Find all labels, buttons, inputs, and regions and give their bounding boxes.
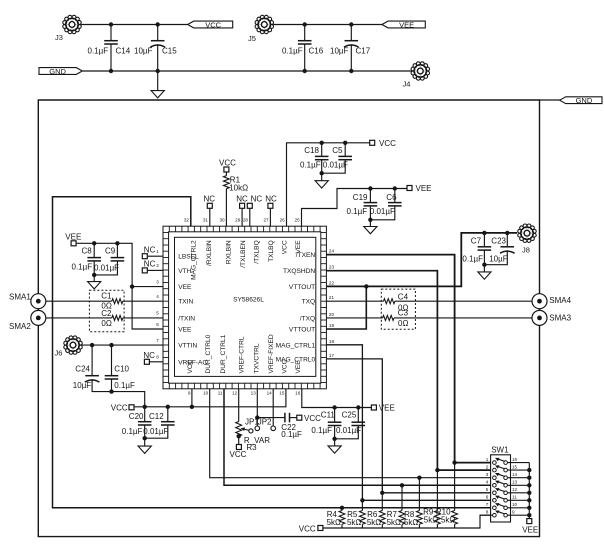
svg-text:30: 30 [219, 217, 225, 222]
svg-text:J5: J5 [248, 34, 256, 43]
svg-text:20: 20 [329, 312, 335, 317]
wire SW1 right contact [508, 499, 530, 501]
junction C17 top [349, 22, 353, 26]
resistor R8 5k [418, 478, 420, 511]
svg-text:C2: C2 [101, 309, 112, 318]
capacitor C20 [144, 407, 146, 422]
jumper JP2 [271, 426, 276, 431]
svg-text:9: 9 [188, 391, 191, 396]
wire SW1 right contact [508, 492, 530, 494]
svg-text:VCC: VCC [304, 414, 321, 423]
capacitor C12 [167, 407, 169, 422]
junction C14 bottom [109, 69, 113, 73]
junction pin3 VEE [130, 284, 134, 288]
resistor R4 5k [341, 508, 343, 511]
junction R7 tap [400, 483, 404, 487]
svg-text:TXQ: TXQ [302, 299, 316, 306]
svg-text:7: 7 [156, 338, 159, 343]
svg-text:VCC: VCC [187, 359, 194, 373]
svg-text:VTTOUT: VTTOUT [289, 284, 315, 291]
svg-text:5: 5 [486, 487, 489, 492]
svg-text:5kΩ: 5kΩ [424, 516, 438, 525]
capacitor C14 [110, 25, 112, 41]
svg-text:J6: J6 [55, 348, 63, 357]
svg-text:C17: C17 [356, 47, 371, 56]
op-amp U1 SY58626L outline [163, 226, 326, 389]
wire pin 24 /TXEN to R10 row [326, 255, 492, 463]
svg-text:16: 16 [512, 457, 518, 462]
resistor R10 5k [454, 463, 456, 511]
resistor R6 5k [381, 493, 383, 511]
svg-text:13: 13 [251, 391, 257, 396]
svg-text:10µF: 10µF [489, 255, 508, 264]
svg-text:7: 7 [486, 502, 489, 507]
no-connect NC pin 2 [142, 268, 147, 273]
svg-text:MAG_CTRL2: MAG_CTRL2 [191, 240, 198, 280]
wire J3 to VCC flag [81, 24, 188, 26]
svg-text:10µF: 10µF [73, 381, 92, 390]
svg-text:C3: C3 [398, 308, 409, 317]
svg-text:GND: GND [49, 67, 66, 76]
junction C24 top [90, 343, 94, 347]
wire C1 to pin 4 TXIN [123, 300, 163, 302]
wire pin 14 to JP2 [272, 389, 274, 426]
svg-text:16: 16 [295, 391, 301, 396]
connector SMA4 [532, 294, 547, 309]
wire SW1 right contact [508, 462, 530, 464]
no-connect NC top pin [207, 203, 212, 208]
svg-text:0.01µF: 0.01µF [143, 427, 168, 436]
resistor C4 0ohm [384, 299, 395, 304]
svg-text:28: 28 [243, 217, 249, 222]
wire pin 32 MAG_CTRL2 to R4 row [53, 197, 493, 508]
switch SW1 pole 7 [493, 506, 497, 510]
svg-text:C10: C10 [114, 365, 129, 374]
junction C12 top [166, 405, 170, 409]
switch SW1 pole 1 [493, 461, 497, 465]
svg-text:3: 3 [486, 472, 489, 477]
wire SMA1 to C1 [46, 300, 112, 302]
svg-text:4: 4 [156, 294, 159, 299]
wire pin26 VCC to C18 rail [287, 143, 370, 226]
power flag VCC [188, 21, 233, 28]
junction C15 top [156, 22, 160, 26]
ground under C7 [478, 272, 491, 279]
svg-text:VCC: VCC [230, 450, 247, 459]
svg-text:0.1µF: 0.1µF [300, 161, 321, 170]
svg-text:27: 27 [263, 217, 269, 222]
IC pin ring ticks [163, 226, 326, 389]
svg-text:VEE: VEE [416, 184, 432, 193]
power flag GND right [560, 97, 602, 104]
svg-text:C14: C14 [116, 47, 131, 56]
svg-text:8: 8 [486, 510, 489, 515]
connector SMA2 [31, 310, 46, 325]
ground under C15 [151, 91, 164, 98]
svg-text:SY58626L: SY58626L [233, 296, 264, 303]
svg-text:SW1: SW1 [491, 446, 509, 455]
wire SW1 right contact [508, 484, 530, 486]
svg-text:VCC: VCC [282, 359, 289, 373]
junction C8 top [92, 241, 96, 245]
svg-text:12: 12 [232, 391, 238, 396]
resistor R5 5k [361, 500, 363, 510]
junction C10 top [109, 343, 113, 347]
svg-text:VEE: VEE [295, 240, 302, 254]
wire pin 23 TXQSHDN to R9 row [326, 271, 492, 470]
svg-text:VCC: VCC [111, 404, 128, 413]
svg-text:C19: C19 [353, 193, 368, 202]
ground under C11 [328, 446, 341, 453]
dashed box C1 C2 [89, 290, 124, 332]
svg-text:0Ω: 0Ω [101, 319, 111, 328]
wire C2 to pin 5 /TXIN [123, 317, 163, 319]
svg-text:C9: C9 [105, 247, 116, 256]
junction SW1 VEE rail [527, 476, 531, 480]
no-connect NC top pin [268, 203, 273, 208]
svg-text:C25: C25 [342, 410, 357, 419]
junction C11 top [332, 405, 336, 409]
wire pin 18 MAG_CTRL1 to R5 row [326, 345, 492, 501]
svg-text:VTTOUT: VTTOUT [289, 327, 315, 334]
resistor R3 R_VAR [236, 422, 242, 437]
junction pin9 [190, 405, 194, 409]
wire pin 22 VTTOUT to C7 rail [326, 233, 517, 287]
svg-text:SMA3: SMA3 [549, 314, 571, 323]
no-connect NC pin 1 [142, 254, 147, 259]
svg-text:0.01µF: 0.01µF [370, 207, 395, 216]
svg-text:VREF-CTRL: VREF-CTRL [239, 336, 246, 373]
svg-text:11: 11 [218, 391, 223, 396]
capacitor C6 [394, 189, 396, 203]
svg-text:VTH: VTH [178, 268, 191, 275]
wire pin 16 to VEE rail [302, 389, 372, 408]
svg-text:VEE: VEE [399, 20, 414, 29]
wire pin 10 DUR_CTRL0 to R8 row [210, 389, 493, 478]
svg-text:5kΩ: 5kΩ [367, 518, 381, 527]
svg-text:SMA4: SMA4 [549, 296, 571, 305]
svg-text:TXVCTRL: TXVCTRL [254, 343, 261, 373]
switch SW1 pole 8 [493, 513, 497, 517]
connector J5 [255, 15, 273, 33]
svg-text:NC: NC [251, 194, 263, 203]
junction C16 bottom [303, 69, 307, 73]
wire SMA2 to C2 [46, 317, 112, 319]
no-connect NC top pin [247, 203, 252, 208]
wire VTTOUT tie to pin 19 [326, 286, 366, 329]
terminal VCC (C18) [370, 140, 375, 145]
svg-text:10: 10 [512, 502, 518, 507]
svg-text:5kΩ: 5kΩ [387, 518, 401, 527]
svg-text:0.1µF: 0.1µF [122, 427, 143, 436]
board outline GND [38, 100, 539, 537]
svg-text:C1: C1 [101, 292, 112, 301]
svg-text:NC: NC [143, 351, 155, 360]
svg-text:J8: J8 [522, 246, 530, 255]
svg-text:TXLBQ: TXLBQ [268, 240, 275, 262]
capacitor C18 [321, 143, 323, 157]
junction C14 top [109, 22, 113, 26]
svg-text:14: 14 [512, 472, 518, 477]
svg-text:C8: C8 [82, 247, 93, 256]
svg-text:VCC: VCC [282, 240, 289, 254]
wire SW1 right contact [508, 514, 530, 516]
svg-text:/RXLBIN: /RXLBIN [206, 240, 213, 266]
svg-text:0.01µF: 0.01µF [336, 426, 361, 435]
svg-text:VCC: VCC [299, 525, 316, 534]
junction C20 top [143, 405, 147, 409]
capacitor C24 [91, 345, 93, 376]
junction C8 bottom [92, 273, 96, 277]
svg-text:VTTIN: VTTIN [178, 343, 197, 350]
svg-text:24: 24 [329, 249, 335, 254]
junction VTTOUT tie [364, 284, 368, 288]
wire pin 20 /TXQ to SMA3 [326, 317, 382, 319]
junction C19 top [368, 186, 372, 190]
wire SW1 right contact [508, 477, 530, 479]
junction C25 top [356, 405, 360, 409]
junction SW1 VEE rail [527, 468, 531, 472]
svg-text:C7: C7 [471, 237, 482, 246]
connector J3 [63, 15, 81, 33]
power flag GND left [39, 68, 82, 75]
wire J5 to VEE flag [273, 24, 382, 26]
svg-text:10µF: 10µF [134, 47, 153, 56]
junction pin13 C22 rail [255, 415, 259, 419]
junction SW1 VEE rail [527, 506, 531, 510]
svg-text:11: 11 [512, 495, 517, 500]
capacitor C9 [116, 243, 118, 257]
capacitor C7 [483, 233, 485, 247]
power flag VEE [382, 21, 425, 28]
svg-text:0.1µF: 0.1µF [347, 207, 368, 216]
svg-text:J3: J3 [55, 33, 63, 42]
svg-text:RXLBIN: RXLBIN [226, 240, 233, 264]
junction C9 top [115, 241, 119, 245]
svg-text:/TXLBEN: /TXLBEN [240, 240, 247, 268]
resistor R1 10k [225, 172, 227, 176]
svg-text:0.1µF: 0.1µF [281, 430, 302, 439]
resistor C3 0ohm [383, 315, 394, 320]
svg-text:8: 8 [156, 355, 159, 360]
svg-text:0.1µF: 0.1µF [282, 47, 303, 56]
wire SW1 right contact [508, 469, 530, 471]
svg-text:/TXLBQ: /TXLBQ [254, 240, 261, 263]
svg-text:10kΩ: 10kΩ [229, 183, 248, 192]
svg-text:0.01µF: 0.01µF [94, 264, 119, 273]
svg-text:VCC: VCC [205, 20, 221, 29]
junction C7 bottom [482, 263, 486, 267]
wire board to GND flag [540, 99, 560, 101]
svg-text:C12: C12 [149, 412, 164, 421]
svg-text:/TXIN: /TXIN [178, 315, 195, 322]
svg-text:0.01µF: 0.01µF [323, 161, 348, 170]
svg-text:VEE: VEE [178, 327, 192, 334]
ground under C20 [138, 446, 151, 453]
connector SMA3 [532, 310, 547, 325]
wire SW1 row8 stub [480, 514, 493, 516]
terminal VEE (C19) [407, 186, 412, 191]
svg-text:SMA1: SMA1 [9, 293, 31, 302]
svg-text:GND: GND [576, 96, 593, 105]
svg-text:21: 21 [329, 295, 335, 300]
junction C17 bottom [349, 69, 353, 73]
wire to pin 3 [132, 286, 163, 288]
svg-text:NC: NC [204, 194, 216, 203]
svg-text:NC: NC [144, 260, 156, 269]
svg-text:C5: C5 [332, 146, 343, 155]
svg-text:NC: NC [144, 245, 156, 254]
wire C8 to ground [93, 275, 95, 282]
switch SW1 pole 5 [493, 491, 497, 495]
wire pin 12 to R_VAR [238, 389, 240, 422]
capacitor C25 [357, 408, 359, 423]
svg-text:DUR_CTRL0: DUR_CTRL0 [205, 334, 212, 373]
svg-text:JP2: JP2 [258, 418, 272, 427]
switch SW1 body [491, 455, 511, 522]
wire VCC pull rail [323, 515, 491, 528]
svg-text:0Ω: 0Ω [398, 319, 408, 328]
no-connect NC pin 8 [144, 359, 149, 364]
wiper arrow R_VAR [249, 429, 253, 433]
svg-text:C20: C20 [129, 412, 144, 421]
wire VCC rail to pin 15 [134, 389, 286, 407]
wire C20 to ground [144, 438, 146, 446]
svg-text:13: 13 [512, 480, 518, 485]
svg-text:14: 14 [267, 391, 273, 396]
capacitor C10 [111, 345, 113, 376]
svg-text:10µF: 10µF [330, 47, 349, 56]
svg-text:5: 5 [156, 311, 159, 316]
jumper JP1 [255, 426, 260, 431]
svg-text:31: 31 [203, 217, 209, 222]
wire pin25 VEE to C19 rail [302, 189, 408, 227]
junction R8 tap [417, 476, 421, 480]
svg-text:VEE: VEE [522, 526, 538, 535]
capacitor C5 [344, 143, 346, 157]
wire SW1 VEE rail [528, 463, 530, 519]
junction SW1 VEE rail [527, 498, 531, 502]
svg-text:19: 19 [329, 323, 335, 328]
junction C7 top [482, 231, 486, 235]
svg-text:VCC: VCC [379, 139, 396, 148]
wire C11 to ground [334, 439, 336, 446]
junction C20 bottom [143, 436, 147, 440]
svg-text:25: 25 [295, 217, 301, 222]
svg-text:5kΩ: 5kΩ [347, 518, 361, 527]
junction C23 top [505, 231, 509, 235]
junction R10 tap [452, 460, 456, 464]
no-connect NC top pin [240, 203, 245, 208]
terminal VEE (C11) [371, 405, 376, 410]
svg-text:MAG_CTRL1: MAG_CTRL1 [276, 342, 316, 349]
wire C19 to ground [369, 220, 371, 227]
terminal VCC (R3) [238, 436, 240, 444]
svg-text:R3: R3 [246, 443, 257, 452]
wire SW1 right contact [508, 507, 530, 509]
svg-text:VREF-FIXED: VREF-FIXED [268, 334, 275, 373]
svg-text:4: 4 [486, 480, 489, 485]
svg-text:C23: C23 [491, 237, 506, 246]
svg-text:TXIN: TXIN [178, 299, 193, 306]
wire GND rail top [82, 70, 411, 72]
svg-text:15: 15 [512, 465, 518, 470]
svg-text:17: 17 [329, 353, 335, 358]
svg-text:1: 1 [486, 457, 489, 462]
svg-text:2: 2 [156, 263, 159, 268]
svg-text:C6: C6 [386, 193, 397, 202]
wire VEE to C8/C9 and pins 3,6 [76, 243, 163, 329]
svg-text:C15: C15 [162, 47, 177, 56]
junction C19 bottom [368, 218, 372, 222]
capacitor C15 [157, 25, 159, 41]
svg-text:12: 12 [512, 487, 518, 492]
switch SW1 pole 3 [493, 476, 497, 480]
junction R5 tap [360, 498, 364, 502]
capacitor C23 [506, 233, 508, 247]
svg-text:26: 26 [280, 217, 286, 222]
svg-text:SMA2: SMA2 [9, 322, 31, 331]
svg-text:10: 10 [203, 391, 209, 396]
capacitor C22 [257, 417, 285, 419]
junction SW1 VEE rail [527, 491, 531, 495]
wire C7 to ground [483, 265, 485, 272]
switch SW1 pole 6 [493, 499, 497, 503]
wire C18 to ground [321, 173, 323, 181]
svg-text:6: 6 [156, 322, 159, 327]
switch SW1 pole 4 [493, 484, 497, 488]
terminal VEE (SW1) [527, 519, 532, 524]
svg-text:TXQSHDN: TXQSHDN [283, 268, 315, 275]
svg-text:23: 23 [329, 265, 335, 270]
wire pin 17 MAG_CTRL0 to R6 row [326, 359, 492, 493]
capacitor C16 [304, 25, 306, 41]
svg-text:C11: C11 [321, 410, 336, 419]
svg-text:2: 2 [486, 465, 489, 470]
switch SW1 pole 2 [493, 468, 497, 472]
resistor C2 0ohm [112, 315, 123, 320]
svg-text:9: 9 [512, 510, 515, 515]
junction C15 bottom [156, 69, 160, 73]
junction C18 bottom [320, 171, 324, 175]
junction C11 bottom [332, 437, 336, 441]
svg-text:C4: C4 [398, 293, 409, 302]
connector J8 [518, 224, 536, 242]
resistor R9 5k [436, 470, 438, 510]
junction R9 tap [435, 468, 439, 472]
svg-text:5kΩ: 5kΩ [441, 516, 455, 525]
svg-text:J4: J4 [403, 80, 411, 89]
capacitor C19 [369, 189, 371, 203]
svg-text:22: 22 [329, 280, 335, 285]
svg-text:/TXQ: /TXQ [300, 315, 315, 322]
junction C5 top [343, 141, 347, 145]
svg-text:29: 29 [235, 217, 241, 222]
svg-text:0.1µF: 0.1µF [72, 263, 93, 272]
svg-text:VEE: VEE [379, 404, 395, 413]
svg-text:0.1µF: 0.1µF [462, 255, 483, 264]
terminal VCC (C22) [297, 415, 302, 420]
svg-text:VEE: VEE [295, 360, 302, 374]
wire pin 9 down [191, 389, 193, 407]
junction C10 bottom [109, 389, 113, 393]
svg-text:3: 3 [156, 279, 159, 284]
wire pin 13 to JP1 [256, 389, 258, 426]
svg-text:C16: C16 [309, 47, 324, 56]
ground under C18 [315, 181, 328, 188]
svg-text:NC: NC [265, 194, 277, 203]
svg-text:C24: C24 [75, 365, 90, 374]
